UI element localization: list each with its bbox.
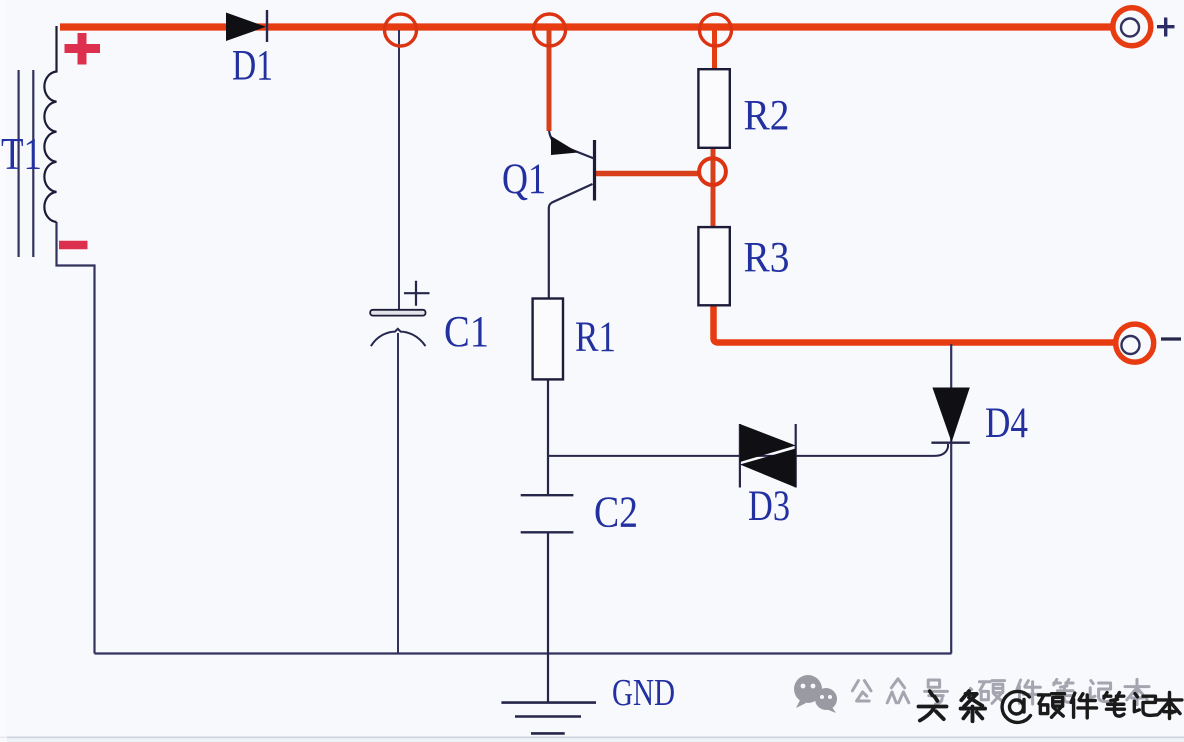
- wire navy D4 vertical: [950, 344, 952, 654]
- svg-text:GND: GND: [612, 672, 675, 714]
- resistor R1: [533, 299, 563, 380]
- resistor R3: [698, 227, 729, 305]
- wire navy junction1 down to C1: [398, 30, 400, 310]
- wire navy horizontal branch to D3 and D4: [548, 444, 948, 456]
- svg-text:D4: D4: [985, 400, 1028, 447]
- svg-text:R3: R3: [744, 235, 790, 282]
- wire red stub junction3 down to R2: [712, 30, 717, 70]
- wire red minus rail (R3 bottom to minus terminal): [714, 303, 1115, 343]
- watermark trailing dot: [1170, 710, 1175, 715]
- ground symbol: [501, 703, 596, 734]
- diode D4: [931, 388, 969, 443]
- svg-text:Q1: Q1: [502, 156, 546, 203]
- wire navy Q1 collector down to R1: [549, 184, 593, 300]
- resistor R2: [698, 69, 729, 148]
- junction node on rail above C1: [385, 14, 417, 46]
- diode D1: [226, 13, 266, 42]
- watermark gray text 公众号：硬件笔记本: [852, 679, 1149, 705]
- plus polarity marker (red): [65, 33, 101, 65]
- svg-text:C2: C2: [594, 488, 638, 537]
- junction node on rail above R2: [700, 14, 732, 46]
- capacitor C2: [521, 495, 574, 532]
- watermark wechat icon: [794, 675, 837, 713]
- junction node between R2 and R3: [699, 158, 726, 185]
- svg-text:T1: T1: [1, 129, 42, 179]
- watermark black text 头条 @硬件笔记本: [919, 691, 1182, 721]
- capacitor C1 polarized: [370, 281, 429, 346]
- wire red stub junction2 down to Q1 emitter: [547, 30, 552, 131]
- diode D3 bidirectional: [740, 424, 796, 488]
- svg-text:C1: C1: [444, 307, 489, 356]
- terminal positive output: [1113, 8, 1175, 46]
- wire navy R1 bottom to C2 top: [547, 378, 549, 495]
- wire navy transformer bottom lead: [57, 222, 95, 654]
- transformer T1 winding: [44, 26, 56, 222]
- svg-text:R1: R1: [575, 314, 616, 361]
- wire navy C1 bottom down to ground rail: [397, 333, 399, 654]
- svg-text:R2: R2: [744, 93, 790, 140]
- wire top red rail: [60, 23, 1112, 30]
- watermark at-sign: [1002, 691, 1030, 722]
- wire red R2 bottom to R3 top through junction: [711, 147, 716, 228]
- svg-text:D1: D1: [232, 43, 273, 90]
- wire red Q1 base to R2/R3 junction: [596, 171, 700, 177]
- wire navy C2 bottom to GND through rail: [547, 532, 549, 702]
- minus polarity marker (red): [59, 241, 88, 250]
- transistor Q1: [549, 131, 595, 201]
- junction node on rail above Q1: [534, 14, 566, 46]
- svg-text:D3: D3: [748, 483, 790, 530]
- transformer T1 core lines: [18, 70, 20, 257]
- wire navy bottom ground rail: [95, 652, 952, 654]
- terminal negative output: [1116, 324, 1181, 362]
